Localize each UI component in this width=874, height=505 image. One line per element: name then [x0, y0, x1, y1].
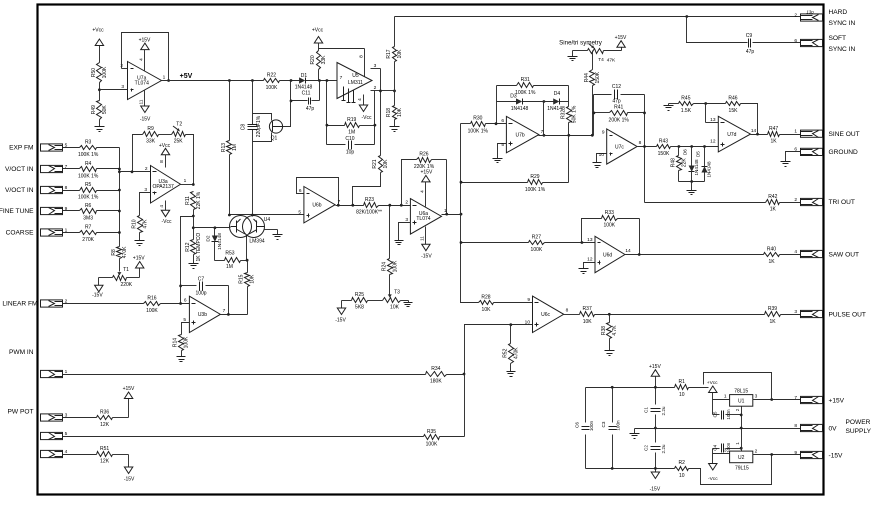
svg-text:13: 13 — [587, 237, 593, 243]
wire R2 box — [689, 455, 772, 485]
capacitor C3 — [601, 388, 621, 469]
wire U7c pin9 label — [602, 130, 605, 136]
svg-text:200K 1%: 200K 1% — [609, 118, 630, 124]
regulator U1 78L15 — [730, 389, 753, 407]
wire to U1 pin1 — [713, 394, 730, 400]
wire R27 row — [461, 242, 595, 244]
wire U6a feedback — [402, 160, 447, 215]
label sine-tri — [559, 40, 603, 47]
junction U7b out — [567, 134, 570, 137]
wire R20 bottom — [318, 70, 320, 81]
resistor R17 — [386, 17, 403, 91]
port label TRI OUT — [829, 199, 855, 206]
svg-text:82K/100K**: 82K/100K** — [356, 209, 382, 215]
resistor R11 — [185, 191, 202, 209]
wire R4 row — [63, 168, 120, 170]
trimpot T4 — [588, 44, 617, 64]
resistor R22 — [264, 72, 280, 91]
svg-text:R6: R6 — [85, 203, 92, 209]
svg-text:U3b: U3b — [198, 312, 207, 318]
wire C7 right down — [228, 286, 230, 315]
resistor R45 — [679, 95, 694, 114]
junction R26 tap — [400, 204, 403, 207]
connector PW POT pin 3 — [41, 412, 68, 421]
resistor R6 — [80, 203, 97, 222]
svg-text:-15V: -15V — [124, 476, 135, 482]
svg-text:U6d: U6d — [603, 252, 612, 258]
ground R49 — [95, 127, 105, 132]
resistor R34 — [426, 366, 447, 385]
svg-text:3: 3 — [405, 217, 408, 223]
wire U7b pin6 label — [501, 118, 504, 124]
wire U6a pin3 gnd — [399, 217, 411, 241]
svg-text:1: 1 — [65, 369, 68, 375]
svg-text:33K: 33K — [321, 55, 327, 65]
wire summing bus — [119, 148, 121, 247]
svg-text:10K: 10K — [397, 49, 403, 59]
svg-text:R42: R42 — [768, 194, 777, 200]
svg-text:4: 4 — [139, 58, 145, 61]
svg-text:HARD: HARD — [829, 9, 848, 16]
junction R48 top — [678, 145, 681, 148]
svg-text:R22: R22 — [267, 72, 276, 78]
op-amp U3b — [189, 296, 220, 332]
connector +15V pin 7 — [794, 395, 822, 404]
connector J FINE TUNE pin 9 — [41, 206, 68, 215]
svg-text:R3: R3 — [85, 139, 92, 145]
svg-text:47p: 47p — [306, 106, 315, 112]
svg-text:1K: 1K — [769, 319, 776, 325]
junction soft drop — [685, 15, 688, 18]
resistor R13 — [221, 141, 238, 155]
resistor R9 — [143, 126, 159, 145]
resistor R52 — [502, 325, 519, 372]
svg-text:150K: 150K — [658, 151, 670, 157]
svg-text:R29: R29 — [530, 174, 539, 180]
junction R21 tap — [351, 204, 354, 207]
svg-text:D4: D4 — [554, 91, 561, 97]
svg-text:+15V: +15V — [123, 386, 135, 392]
svg-text:FINE TUNE: FINE TUNE — [0, 208, 34, 215]
svg-text:R49: R49 — [91, 105, 97, 114]
wire soft sync — [687, 17, 801, 43]
svg-text:+Vcc: +Vcc — [707, 380, 718, 386]
wire U6a out — [442, 208, 461, 215]
svg-text:R39: R39 — [768, 306, 777, 312]
power -15V arrow T1 — [92, 285, 103, 298]
resistor R41 — [594, 105, 645, 124]
svg-text:220K: 220K — [120, 282, 132, 288]
svg-text:R28: R28 — [481, 294, 490, 300]
wire U3a pin3 to R10 — [140, 187, 151, 216]
svg-text:7: 7 — [794, 395, 797, 401]
junction R27 bus — [460, 241, 463, 244]
junction C11 gate — [290, 100, 293, 103]
svg-text:3: 3 — [724, 448, 727, 454]
svg-text:R13: R13 — [221, 143, 227, 152]
resistor R49 — [91, 101, 108, 120]
resistor R38 — [601, 315, 618, 351]
svg-text:8: 8 — [159, 160, 165, 163]
junction R44 bottom — [591, 134, 594, 137]
wire R1 to Vcc — [689, 387, 709, 389]
svg-text:6: 6 — [794, 38, 797, 44]
port label PULSE OUT — [829, 311, 866, 318]
power -15V arrow T3 — [335, 308, 346, 324]
regulator U2 79L15 — [730, 451, 753, 471]
resistor R46 — [726, 95, 741, 114]
svg-text:10: 10 — [679, 473, 685, 479]
svg-text:3M3: 3M3 — [83, 216, 93, 222]
port label 0V — [829, 426, 838, 433]
resistor R12 — [185, 233, 202, 262]
junction R41 right — [643, 112, 646, 115]
port label FINE TUNE — [0, 208, 34, 215]
svg-text:11: 11 — [420, 236, 426, 241]
svg-text:T3: T3 — [394, 290, 400, 296]
wire R11 bottom — [193, 210, 195, 240]
resistor R28 — [479, 294, 494, 313]
svg-text:SOFT: SOFT — [829, 35, 847, 42]
wire U7b out — [539, 129, 593, 136]
wire T4 right +15 — [604, 48, 622, 51]
op-amp U7d — [718, 116, 750, 152]
svg-text:1M: 1M — [226, 264, 233, 270]
svg-text:+Vcc: +Vcc — [92, 28, 104, 34]
svg-text:47p: 47p — [612, 98, 621, 104]
svg-text:SAW OUT: SAW OUT — [829, 251, 860, 258]
svg-text:100K: 100K — [102, 66, 108, 78]
power -15V arrow U7a — [139, 91, 152, 123]
connector TRI OUT pin 2 — [794, 197, 822, 206]
svg-text:R9: R9 — [147, 126, 154, 132]
ground R38 — [605, 351, 615, 356]
resistor R51 — [97, 446, 113, 465]
resistor R39 — [765, 306, 781, 325]
svg-text:R21: R21 — [372, 159, 378, 168]
svg-text:C5: C5 — [713, 411, 718, 417]
wire R10 gnd — [139, 233, 141, 241]
svg-text:7: 7 — [340, 75, 343, 81]
svg-text:3: 3 — [144, 187, 147, 193]
svg-text:13: 13 — [710, 117, 716, 123]
svg-text:10K: 10K — [482, 307, 492, 313]
junction U7c out — [643, 145, 646, 148]
capacitor C8 — [241, 115, 263, 137]
svg-text:+5V: +5V — [180, 73, 193, 80]
svg-text:R35: R35 — [427, 429, 436, 435]
ground R52 — [507, 372, 516, 377]
junction R53/R15 — [246, 259, 249, 262]
wire 0V rail — [635, 428, 801, 430]
svg-text:C12: C12 — [612, 84, 621, 90]
ground R10 — [135, 241, 145, 246]
resistor R13 chain — [229, 81, 231, 215]
wire U7a feedback box — [122, 33, 169, 81]
diode D2 — [206, 228, 223, 261]
svg-text:+15V: +15V — [133, 256, 145, 262]
resistor R33 — [602, 210, 618, 229]
svg-text:V/OCT IN: V/OCT IN — [5, 187, 34, 194]
svg-text:8: 8 — [566, 308, 569, 314]
svg-text:SYNC IN: SYNC IN — [829, 20, 856, 27]
svg-text:2: 2 — [794, 197, 797, 203]
resistor R15 — [239, 261, 256, 315]
svg-text:R38: R38 — [601, 326, 607, 335]
capacitor C12 — [594, 84, 645, 104]
svg-text:R45: R45 — [681, 95, 690, 101]
svg-text:TL074: TL074 — [416, 216, 430, 222]
connector HARD SYNC pin 2 — [794, 10, 822, 22]
svg-text:100K: 100K — [603, 223, 615, 229]
svg-text:R4: R4 — [85, 161, 92, 167]
wire U6d pin13 label — [587, 237, 593, 243]
svg-text:100n: 100n — [616, 420, 621, 431]
svg-text:R43: R43 — [659, 138, 668, 144]
junction C5 tap — [740, 414, 743, 417]
op-amp U6d — [595, 236, 625, 272]
svg-text:1K TEMPCO: 1K TEMPCO — [196, 233, 202, 262]
wire T1 right — [127, 269, 140, 278]
svg-text:1: 1 — [735, 442, 740, 445]
resistor R24 — [381, 206, 398, 275]
connector pin 5 — [41, 431, 68, 440]
junction bus — [118, 168, 121, 171]
svg-text:14: 14 — [751, 128, 757, 134]
svg-text:8: 8 — [794, 423, 797, 429]
junction Q1 collector — [251, 214, 254, 217]
resistor R20 — [310, 51, 327, 70]
power -15V arrow U6a — [420, 227, 433, 260]
svg-text:4: 4 — [794, 249, 797, 255]
svg-text:2: 2 — [374, 85, 377, 91]
junction pin2 row — [379, 90, 382, 93]
svg-text:TL074: TL074 — [135, 80, 149, 86]
capacitor C5 — [713, 400, 742, 420]
junction D5 top — [703, 145, 706, 148]
svg-text:R24: R24 — [381, 262, 387, 271]
svg-text:R8: R8 — [111, 249, 117, 256]
svg-text:100K: 100K — [531, 247, 543, 253]
power -15V arrow R51 — [124, 467, 135, 482]
svg-text:-15V: -15V — [421, 254, 432, 260]
wire pin12 row — [679, 146, 719, 148]
svg-text:+15V: +15V — [615, 35, 627, 41]
svg-text:R2: R2 — [679, 460, 686, 466]
svg-text:10: 10 — [599, 152, 605, 158]
svg-text:4: 4 — [357, 98, 363, 101]
svg-text:COARSE: COARSE — [6, 230, 34, 237]
op-amp U7a — [128, 62, 162, 100]
svg-text:R46: R46 — [728, 95, 737, 101]
svg-text:R36: R36 — [100, 409, 109, 415]
ground T4 — [568, 57, 578, 61]
svg-text:10p: 10p — [346, 149, 355, 155]
wire pulse out — [781, 314, 801, 316]
connector J COARSE pin 1 — [41, 227, 68, 236]
ground T3 — [404, 303, 413, 307]
junction R34 tap — [463, 373, 466, 376]
svg-text:U7c: U7c — [615, 144, 624, 150]
svg-text:T4: T4 — [598, 57, 604, 63]
svg-text:1M: 1M — [348, 130, 355, 136]
svg-text:+15V: +15V — [420, 170, 432, 176]
wire R21 to U6b out — [353, 173, 381, 206]
wire +5V rail — [162, 73, 264, 81]
svg-text:EXP FM: EXP FM — [9, 145, 33, 152]
junction U2 out — [770, 453, 773, 456]
svg-text:R15: R15 — [239, 274, 245, 283]
wire R45-R46 — [694, 103, 726, 105]
ground R14 — [177, 357, 186, 362]
junction U6d fb — [638, 253, 641, 256]
wire collector row — [230, 214, 304, 216]
svg-text:+Vcc: +Vcc — [159, 143, 171, 149]
resistor R36 — [97, 409, 113, 428]
power -15V arrow psu — [650, 472, 661, 492]
svg-text:33K: 33K — [146, 139, 156, 145]
wire PWM row — [63, 374, 465, 376]
svg-text:1: 1 — [794, 129, 797, 135]
wire pin13 drop — [706, 104, 719, 123]
wire T2 right down — [186, 135, 194, 185]
port label SINE OUT — [829, 131, 860, 138]
svg-text:220pF1%: 220pF1% — [256, 115, 262, 137]
svg-text:R20: R20 — [310, 55, 316, 64]
svg-text:R44: R44 — [584, 73, 590, 82]
svg-text:R40: R40 — [767, 246, 776, 252]
svg-text:12K: 12K — [100, 422, 110, 428]
junction U6b fb — [337, 204, 340, 207]
wire ground port — [786, 152, 801, 162]
wire pin7 label — [327, 75, 343, 81]
svg-text:R11: R11 — [185, 196, 191, 205]
svg-text:10: 10 — [679, 392, 685, 398]
wire U4 right base to ground — [265, 230, 278, 235]
svg-text:R52: R52 — [502, 348, 508, 357]
port label LINEAR FM — [2, 301, 37, 308]
svg-text:78L15: 78L15 — [734, 389, 748, 395]
svg-text:2: 2 — [145, 166, 148, 172]
svg-text:4: 4 — [159, 205, 165, 208]
junction R29 bus — [460, 181, 463, 184]
svg-text:9: 9 — [602, 130, 605, 136]
wire U7b pin5 gnd — [498, 142, 507, 159]
svg-text:3: 3 — [374, 63, 377, 69]
port label V/OCT IN — [5, 166, 34, 173]
junction U7d out — [756, 133, 759, 136]
capacitor C4 — [713, 442, 742, 453]
resistor R1 — [675, 379, 689, 398]
wire U7c pin10 gnd — [597, 152, 607, 162]
wire psu top rail — [586, 387, 675, 389]
svg-text:13p: 13p — [806, 10, 814, 15]
svg-text:D3: D3 — [510, 94, 517, 100]
capacitor C11 — [302, 90, 315, 112]
port label COARSE — [6, 230, 34, 237]
wire U1 fb box — [704, 373, 772, 400]
svg-text:0V: 0V — [829, 426, 838, 433]
svg-text:1K: 1K — [768, 259, 775, 265]
svg-text:D5: D5 — [696, 151, 701, 157]
port label SAW OUT — [829, 251, 860, 258]
junction R11/left — [192, 215, 195, 218]
wire U6c pin10 label — [525, 320, 531, 326]
connector PULSE OUT pin 3 — [794, 309, 822, 318]
wire sine out — [780, 134, 801, 136]
trimpot T3 — [383, 290, 401, 311]
wire T1 left — [99, 278, 113, 286]
svg-text:1N4148: 1N4148 — [694, 159, 699, 176]
ground R45 — [664, 106, 674, 111]
svg-text:470K: 470K — [513, 347, 519, 359]
svg-text:10K: 10K — [383, 159, 389, 169]
power +Vcc arrow R20 — [312, 28, 324, 51]
svg-text:1M: 1M — [232, 144, 238, 151]
ground U7c pin10 — [593, 163, 602, 168]
wire U6d out — [625, 248, 764, 254]
svg-text:U1: U1 — [738, 398, 745, 404]
svg-text:47p: 47p — [746, 49, 755, 55]
power +15V arrow T4 — [615, 35, 627, 47]
resistor R32 — [560, 86, 577, 136]
balance pins U5 — [342, 87, 356, 103]
svg-text:2: 2 — [794, 12, 797, 18]
svg-text:-Vcc: -Vcc — [362, 115, 373, 121]
connector J V/OCT IN pin 7 — [41, 164, 68, 173]
svg-text:C8: C8 — [241, 124, 247, 131]
svg-text:8: 8 — [65, 185, 68, 191]
diode D4 — [547, 91, 565, 112]
op-amp U6b — [304, 187, 335, 223]
svg-text:3: 3 — [794, 309, 797, 315]
svg-text:4.7K: 4.7K — [612, 325, 618, 336]
power +15V arrow psu — [649, 364, 661, 405]
resistor R10 — [131, 216, 148, 233]
svg-text:V/OCT IN: V/OCT IN — [5, 166, 34, 173]
svg-text:100K: 100K — [266, 85, 278, 91]
wire tri out row — [645, 202, 766, 204]
svg-text:47K: 47K — [142, 219, 148, 229]
junction 0V rail — [654, 427, 743, 430]
wire R25 left — [342, 301, 352, 309]
power +15V arrow U7a — [139, 38, 152, 71]
connector pin 4 — [41, 449, 68, 458]
capacitor C2 — [644, 444, 667, 453]
junction R13 collector — [228, 214, 231, 217]
svg-text:1N4148: 1N4148 — [707, 161, 712, 178]
svg-text:50K: 50K — [102, 105, 108, 115]
svg-text:100K 1%: 100K 1% — [515, 90, 536, 96]
resistor R53 — [215, 251, 248, 270]
wire R3 row — [63, 147, 120, 149]
svg-text:25K: 25K — [174, 138, 184, 144]
svg-text:100K: 100K — [392, 260, 398, 272]
trimpot T1 — [113, 267, 133, 288]
svg-text:9: 9 — [527, 297, 530, 303]
wire T3-R25 — [368, 300, 383, 302]
wire R37 out — [595, 314, 765, 316]
svg-text:LM394: LM394 — [249, 238, 265, 244]
svg-text:POWER: POWER — [846, 419, 871, 426]
resistor R30 — [468, 116, 489, 135]
port label -15V — [829, 453, 844, 460]
junction U7a out — [167, 79, 170, 82]
svg-text:5: 5 — [183, 317, 186, 323]
svg-text:100K 1%: 100K 1% — [78, 195, 99, 201]
wire fb right — [374, 91, 376, 145]
ground U7b pin5 — [493, 159, 503, 163]
